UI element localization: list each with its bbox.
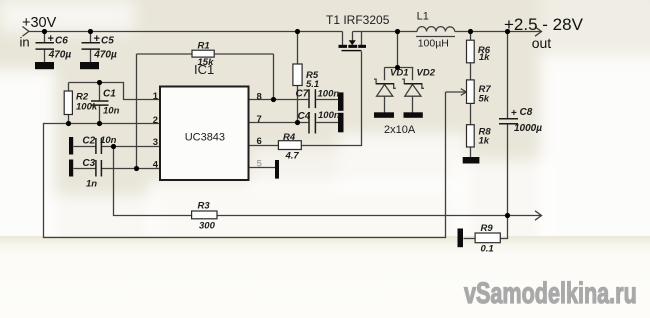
svg-text:2: 2 xyxy=(153,115,158,126)
svg-text:VD2: VD2 xyxy=(417,67,436,78)
svg-text:8: 8 xyxy=(257,92,262,103)
svg-text:R4: R4 xyxy=(283,132,296,143)
svg-text:100n: 100n xyxy=(318,110,340,121)
svg-text:300: 300 xyxy=(199,221,216,232)
svg-text:C6: C6 xyxy=(55,36,68,47)
svg-text:+30V: +30V xyxy=(22,15,57,31)
svg-text:100n: 100n xyxy=(318,88,340,99)
svg-text:3: 3 xyxy=(153,137,158,148)
svg-text:C4: C4 xyxy=(298,111,311,122)
svg-text:vSamodelkina.ru: vSamodelkina.ru xyxy=(464,275,637,309)
svg-text:VD1: VD1 xyxy=(390,67,408,78)
svg-text:out: out xyxy=(532,35,552,51)
svg-text:470µ: 470µ xyxy=(93,50,117,61)
svg-text:L1: L1 xyxy=(417,11,429,23)
svg-text:1k: 1k xyxy=(479,52,490,63)
svg-text:+: + xyxy=(48,33,54,45)
svg-text:C3: C3 xyxy=(82,158,95,169)
svg-text:15k: 15k xyxy=(198,57,215,68)
svg-text:2x10A: 2x10A xyxy=(384,124,416,136)
svg-text:T1 IRF3205: T1 IRF3205 xyxy=(326,13,390,27)
svg-text:+2.5 - 28V: +2.5 - 28V xyxy=(504,15,584,34)
svg-text:+: + xyxy=(511,108,517,119)
svg-text:7: 7 xyxy=(257,114,262,125)
svg-text:C7: C7 xyxy=(296,88,309,99)
svg-text:+: + xyxy=(94,33,100,45)
svg-text:1000µ: 1000µ xyxy=(514,123,542,134)
svg-text:5k: 5k xyxy=(479,94,490,105)
svg-text:470µ: 470µ xyxy=(48,50,72,61)
svg-text:100µH: 100µH xyxy=(418,38,449,50)
svg-text:6: 6 xyxy=(257,136,262,147)
svg-text:R3: R3 xyxy=(198,201,211,212)
svg-text:R9: R9 xyxy=(481,223,494,234)
svg-text:1: 1 xyxy=(153,91,159,102)
svg-text:1n: 1n xyxy=(86,178,97,189)
svg-text:5: 5 xyxy=(257,159,263,170)
svg-text:C8: C8 xyxy=(520,107,533,118)
svg-text:C1: C1 xyxy=(103,89,116,100)
svg-text:10n: 10n xyxy=(100,135,117,146)
svg-text:UC3843: UC3843 xyxy=(185,131,225,143)
svg-text:R1: R1 xyxy=(198,40,210,51)
svg-text:4: 4 xyxy=(153,160,159,171)
svg-text:in: in xyxy=(20,35,30,50)
svg-text:C2: C2 xyxy=(82,135,95,146)
svg-text:100k: 100k xyxy=(76,102,98,113)
svg-text:C5: C5 xyxy=(101,36,114,47)
svg-text:4.7: 4.7 xyxy=(285,151,300,162)
svg-text:1k: 1k xyxy=(479,136,490,147)
svg-text:0.1: 0.1 xyxy=(481,244,494,255)
svg-text:10n: 10n xyxy=(103,106,120,117)
